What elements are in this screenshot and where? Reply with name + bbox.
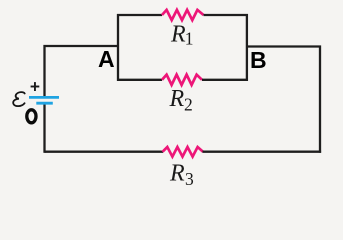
wire: bottom left segment bbox=[45, 151, 164, 153]
wire: parallel box right vertical (node B) bbox=[246, 14, 248, 81]
resistor R1 bbox=[162, 10, 204, 20]
svg-text:3: 3 bbox=[185, 169, 194, 189]
svg-text:1: 1 bbox=[185, 29, 194, 49]
svg-text:R: R bbox=[169, 161, 185, 187]
terminal label O bbox=[27, 110, 36, 123]
svg-text:2: 2 bbox=[184, 94, 193, 114]
svg-text:A: A bbox=[98, 46, 115, 72]
wire: parallel box left vertical (node A) bbox=[117, 14, 119, 81]
resistor R3 bbox=[163, 147, 204, 157]
wire: battery top to node A bbox=[45, 46, 119, 97]
svg-text:R: R bbox=[169, 86, 185, 112]
battery bottom plate (short, negative) bbox=[36, 102, 53, 105]
wire: top branch left segment bbox=[117, 14, 162, 16]
svg-text:R: R bbox=[170, 21, 186, 47]
resistor R2 bbox=[162, 75, 202, 85]
wire: top branch right segment bbox=[204, 14, 249, 16]
battery top plate (long, positive) bbox=[29, 96, 59, 99]
svg-text:B: B bbox=[250, 47, 267, 73]
wire: bottom branch left segment bbox=[117, 79, 162, 81]
plus sign bbox=[31, 82, 40, 91]
wire: bottom branch right segment bbox=[202, 79, 248, 81]
wire: battery bottom to bottom-left corner bbox=[43, 104, 45, 153]
wire: node B to top-right corner and down right side bbox=[247, 47, 320, 153]
wire: bottom right segment bbox=[203, 151, 322, 153]
EMF symbol script E bbox=[13, 92, 24, 106]
